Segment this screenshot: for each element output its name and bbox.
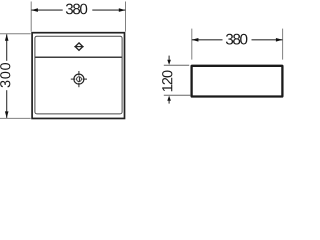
dimension line (6, 34, 8, 61)
extension lines (191, 29, 193, 60)
arrows (192, 38, 199, 42)
drain symbol (71, 71, 87, 87)
extension lines (30, 2, 32, 32)
dimension line (31, 9, 62, 11)
arrows (31, 8, 38, 12)
extension lines (0, 33, 31, 35)
dimension line (192, 39, 223, 41)
label (226, 34, 248, 45)
side profile rectangle (192, 66, 283, 97)
arrows (5, 34, 9, 41)
label (rotated) (0, 63, 10, 87)
faucet hole diamond (74, 43, 83, 50)
outside arrows and stubs (168, 56, 170, 60)
outer rim rectangle (32, 33, 124, 119)
label (rotated) (162, 71, 172, 92)
extension lines (164, 64, 189, 66)
basin back edge line (35, 56, 122, 58)
label (66, 4, 87, 15)
inner rim line (35, 36, 122, 114)
